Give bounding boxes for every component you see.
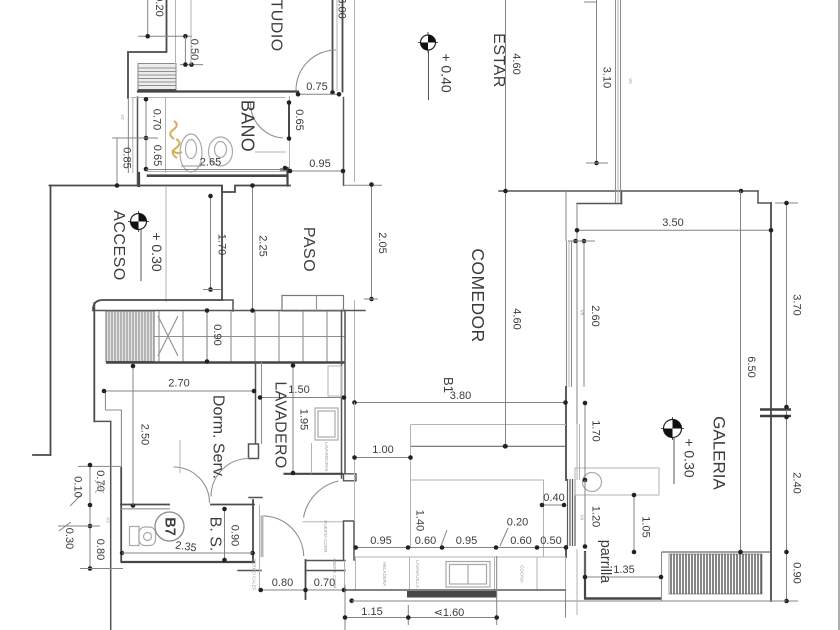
window V6 wall [616, 0, 621, 203]
svg-text:0.60: 0.60 [415, 535, 436, 547]
dim 2.60 comedor window [568, 239, 601, 387]
svg-text:0.85: 0.85 [121, 147, 133, 168]
stair rail box [282, 296, 344, 312]
kitchen counter bottom band [356, 557, 566, 590]
svg-text:1.05: 1.05 [640, 516, 652, 537]
svg-text:4.60: 4.60 [511, 308, 523, 329]
galeria floor edge [662, 552, 772, 601]
svg-text:0.65: 0.65 [293, 109, 305, 130]
dim 2.70 dorm serv [102, 378, 257, 394]
door arc studio [296, 50, 336, 90]
svg-text:0.50: 0.50 [188, 39, 200, 60]
svg-text:2.40: 2.40 [791, 472, 803, 493]
wall stub below lavadero door [344, 521, 355, 560]
label window V2 [120, 114, 125, 120]
svg-text:0.95: 0.95 [309, 158, 330, 170]
window V8 [567, 241, 572, 387]
wall below stairs [106, 361, 345, 363]
wall kitchen passage stub [306, 560, 346, 599]
wall BS corner piece [249, 497, 262, 499]
room label COMEDOR [468, 248, 488, 342]
wall BS right [252, 500, 254, 562]
svg-text:LAVADERO: LAVADERO [272, 381, 289, 468]
extension line x191 [190, 0, 192, 65]
fixture bidet [180, 134, 202, 172]
svg-text:1.15: 1.15 [361, 606, 382, 618]
wall studio right double [330, 0, 342, 95]
svg-text:1.40: 1.40 [414, 510, 426, 531]
svg-text:2.05: 2.05 [376, 232, 388, 253]
window V3 marks [95, 480, 104, 493]
wall exterior right [770, 203, 772, 601]
wall right jog top [758, 191, 771, 203]
dim 2.65 bathroom [146, 157, 287, 171]
wall BS bottom second line [238, 570, 261, 572]
dim 1.95 lavadero vertical [291, 363, 310, 475]
dim 0.65 bath right [287, 100, 305, 141]
dim 1.70 galeria [583, 401, 602, 483]
dim 1.15 1.60 bottom [343, 556, 566, 630]
dim stack left 0.10 0.70 0.30 0.80 [58, 463, 123, 571]
dim dot counter line [503, 444, 508, 449]
svg-text:1.35: 1.35 [613, 564, 634, 576]
shower niche line bathroom [255, 151, 286, 153]
room label ACCESO [110, 210, 127, 281]
svg-text:0.90: 0.90 [211, 324, 223, 345]
wall face lines galeria [577, 424, 580, 480]
room label ESTAR [490, 33, 507, 88]
svg-text:parrilla: parrilla [597, 540, 613, 584]
wall pillar BS corner [249, 444, 259, 459]
svg-text:Dorm. Serv.: Dorm. Serv. [210, 395, 227, 479]
wall BS bottom [121, 561, 255, 563]
wall comedor-galeria mid [565, 387, 567, 480]
svg-text:0.80: 0.80 [94, 539, 106, 560]
wall paso bottom rounded [93, 300, 365, 311]
wall bath-acceso connector [138, 173, 140, 186]
svg-text:+ 0.30: + 0.30 [682, 438, 698, 478]
svg-text:V8: V8 [580, 310, 585, 316]
svg-text:0.10: 0.10 [72, 476, 84, 497]
parrilla counter [575, 468, 659, 495]
level symbol acceso +0.30 [128, 211, 165, 281]
beam mark right wall [760, 410, 791, 417]
dim 4.60 estar-comedor column [503, 0, 522, 449]
svg-text:3.10: 3.10 [601, 67, 613, 88]
svg-text:V2: V2 [120, 114, 125, 120]
svg-text:ABERT. CORR.: ABERT. CORR. [332, 558, 337, 589]
dim 0.90 BS [222, 507, 240, 563]
tiny label door lavadero [323, 520, 328, 553]
svg-text:6.50: 6.50 [745, 356, 757, 377]
dim 6.50 galeria [738, 191, 757, 554]
wall acceso left [33, 186, 51, 456]
window hatch W1 studio [138, 64, 176, 91]
dim 0.20 top left [138, 0, 192, 39]
wall bathroom right drop [281, 168, 288, 186]
wall bathroom top [131, 92, 298, 98]
svg-text:0.75: 0.75 [306, 81, 327, 93]
scan border right edge [838, 0, 840, 630]
kitchen counter top run [410, 425, 566, 557]
door arc BS [174, 467, 210, 503]
dim 1.05 parrilla [632, 493, 652, 555]
kitchen dark sill band [407, 591, 497, 598]
svg-text:ESTAR: ESTAR [490, 33, 507, 88]
cupboard lavadero corner [328, 366, 342, 396]
room label GALERIA [710, 416, 729, 490]
stairs cross mark [158, 316, 178, 356]
dim 1.20 window V9 [583, 480, 602, 549]
wall bathroom bottom [147, 172, 287, 176]
svg-text:COCINA: COCINA [520, 565, 525, 583]
door arc dorm serv [180, 440, 249, 497]
fixture toilet bathroom [209, 137, 233, 166]
dim column right 3.70 2.40 0.90 [775, 201, 803, 604]
dim line bottom y601 [352, 549, 787, 615]
svg-text:1.00: 1.00 [372, 444, 393, 456]
tiny label termo [252, 559, 257, 592]
level symbol estar +0.40 [418, 32, 455, 100]
dim 2.25 paso [250, 183, 268, 313]
svg-text:TERMO CALEF.: TERMO CALEF. [252, 559, 257, 592]
svg-text:PASO: PASO [300, 227, 317, 272]
svg-text:2.60: 2.60 [589, 305, 601, 326]
room label PASO [300, 227, 317, 272]
wall dorm serv left upper [93, 303, 95, 421]
wall bathroom right [288, 96, 291, 171]
dim 3.80 comedor [352, 390, 568, 405]
door arc bathroom [250, 102, 283, 139]
tiny label lavavajilla [415, 560, 420, 588]
dim 1.00 kitchen [352, 403, 413, 522]
svg-text:COMEDOR: COMEDOR [468, 248, 488, 342]
dim 2.35 BS [122, 540, 253, 555]
svg-text:0.20: 0.20 [153, 0, 165, 17]
svg-text:1.50: 1.50 [288, 384, 309, 396]
svg-text:2.50: 2.50 [139, 424, 151, 445]
wall parrilla left [584, 551, 586, 599]
dim 0.75 door [296, 81, 342, 97]
wall acceso top [50, 186, 291, 193]
stairs landing hatch [106, 311, 154, 362]
wall paso right upper [344, 98, 383, 186]
label B1 beam [441, 377, 456, 393]
svg-text:ACCESO: ACCESO [110, 210, 127, 281]
window V9 [568, 479, 576, 546]
vanity edge bathroom [165, 97, 167, 173]
svg-text:B7: B7 [162, 517, 178, 536]
svg-text:+ 0.40: + 0.40 [439, 53, 455, 93]
svg-text:3.70: 3.70 [791, 294, 803, 315]
svg-text:B. S.: B. S. [207, 517, 224, 552]
dim 1.40 kitchen vertical [411, 480, 426, 548]
dim row kitchen 0.95 0.60 0.95 0.60 0.50 [353, 530, 568, 550]
svg-text:0.30: 0.30 [63, 528, 75, 549]
dim 1.70 acceso [203, 194, 228, 292]
dim 1.35 parrilla [583, 552, 664, 579]
svg-text:GALERIA: GALERIA [710, 416, 729, 490]
wall acceso-paso divider [221, 187, 223, 300]
svg-text:0.20: 0.20 [507, 517, 528, 529]
faucet marks yellow [170, 121, 182, 158]
tiny label heladera [382, 562, 387, 586]
svg-text:1.20: 1.20 [590, 506, 602, 527]
wall BS top [121, 503, 254, 509]
wall step inner [94, 421, 110, 630]
dim 0.80 0.70 bottom passage [258, 577, 346, 592]
svg-text:1.70: 1.70 [590, 420, 602, 441]
dim 0.90 stairs [205, 308, 223, 364]
room label BANO [238, 100, 258, 152]
svg-text:0.95: 0.95 [370, 535, 391, 547]
door arc lavadero [303, 481, 344, 522]
svg-text:+ 0.30: + 0.30 [149, 232, 165, 272]
tiny label cocina [520, 565, 525, 583]
tiny label lavarropas [324, 442, 329, 472]
level symbol galeria +0.30 [661, 417, 698, 484]
wall comedor-galeria upper [566, 204, 577, 425]
svg-text:0.70: 0.70 [151, 109, 163, 130]
wall parrilla bottom [584, 597, 661, 599]
label window V8 [580, 310, 585, 316]
svg-text:0.80: 0.80 [272, 577, 293, 589]
wall comedor-galeria lower [565, 546, 567, 557]
label circle B7 [155, 512, 184, 541]
door arc kitchen passage [250, 505, 303, 589]
label window V6 [628, 78, 633, 84]
svg-text:⋖1.60: ⋖1.60 [434, 607, 465, 619]
dim 3.10 estar [584, 0, 613, 165]
wall dorm-lavadero divider [256, 362, 262, 444]
svg-text:2.65: 2.65 [200, 157, 221, 169]
porch edge acceso [165, 187, 167, 302]
room label Dorm. Serv. [210, 395, 227, 479]
svg-text:STUDIO: STUDIO [268, 0, 285, 52]
room label LAVADERO [272, 381, 289, 468]
svg-text:4.60: 4.60 [510, 53, 522, 74]
svg-text:2.70: 2.70 [168, 378, 189, 390]
label window V9 [580, 515, 585, 521]
fixture toilet BS [130, 527, 156, 546]
label window V3 [106, 517, 111, 523]
room label parrilla [597, 540, 613, 584]
svg-text:1.95: 1.95 [298, 409, 310, 430]
svg-text:0.70: 0.70 [314, 577, 335, 589]
dim 0.70 0.65 bathroom inner [112, 97, 163, 171]
svg-text:1.70: 1.70 [216, 234, 228, 255]
kitchen bottom edge [345, 589, 566, 591]
svg-text:V9: V9 [580, 515, 585, 521]
svg-text:0.40: 0.40 [543, 492, 564, 504]
kitchen sink [446, 562, 490, 588]
wall estar-comedor band [499, 191, 758, 204]
galeria hatch strip [669, 554, 762, 594]
svg-text:0.65: 0.65 [151, 145, 163, 166]
wall dorm serv left lower [78, 466, 121, 562]
dim 2.05 paso right [364, 182, 388, 301]
svg-text:0.90: 0.90 [791, 562, 803, 583]
dim 2.50 dorm serv vertical [131, 364, 151, 505]
svg-text:0.60: 0.60 [510, 535, 531, 547]
svg-text:0.95: 0.95 [456, 535, 477, 547]
dim 3.50 galeria top [575, 189, 774, 233]
wall bathroom left outer [128, 97, 137, 186]
wall lavadero right double [342, 311, 346, 479]
room label STUDIO [268, 0, 285, 52]
svg-text:2.25: 2.25 [257, 235, 269, 256]
dim 1.50 lavadero [258, 384, 347, 400]
svg-text:LAVAVAJILLA: LAVAVAJILLA [415, 560, 420, 588]
junction dot BS wall [120, 551, 124, 555]
svg-text:0.50: 0.50 [540, 535, 561, 547]
dim 0.95 right of bath [288, 158, 346, 173]
svg-text:BANO: BANO [238, 100, 258, 152]
wall lavadero bottom [284, 443, 357, 481]
tiny label under kitchen door [332, 558, 337, 589]
wall step outer [105, 391, 121, 468]
dim 3.00 studio [336, 0, 348, 91]
svg-text:3.00: 3.00 [336, 0, 348, 19]
appliance washer lavadero [315, 408, 338, 440]
wall studio left lower [175, 0, 177, 64]
svg-text:LAVARROPAS: LAVARROPAS [324, 442, 329, 472]
svg-text:V6: V6 [628, 78, 633, 84]
svg-text:3.80: 3.80 [450, 390, 471, 402]
dim 0.40 kitchen [540, 492, 567, 507]
dim 0.50 [180, 36, 203, 67]
dim 0.85 left [115, 138, 133, 188]
wall line outer right of studio [354, 0, 356, 403]
svg-text:HELADERA: HELADERA [382, 562, 387, 586]
svg-text:3.50: 3.50 [662, 217, 683, 229]
room label B. S. [207, 517, 224, 552]
svg-text:PUERTA CORR.: PUERTA CORR. [323, 520, 328, 553]
dim 0.20 kitchen leader [500, 517, 528, 547]
stairs treads [154, 311, 345, 362]
svg-text:V3: V3 [106, 517, 111, 523]
wall studio left upper [128, 0, 167, 98]
svg-text:0.90: 0.90 [229, 525, 241, 546]
